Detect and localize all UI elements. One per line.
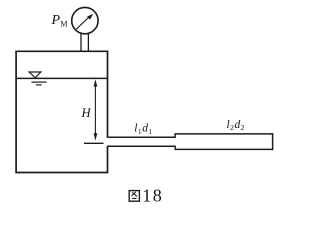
tank top wall bbox=[15, 50, 108, 52]
free-surface triangle symbol bbox=[29, 72, 41, 78]
pipe 2 bottom wall bbox=[175, 148, 274, 150]
caption glyph 图 (drawn) bbox=[129, 191, 139, 202]
pressure gauge PM dial bbox=[72, 7, 98, 33]
tank right wall lower segment bbox=[107, 146, 109, 173]
surface symbol dash 2 bbox=[36, 84, 42, 86]
surface symbol dash 1 bbox=[31, 81, 46, 83]
dimension H arrow (double headed) bbox=[94, 79, 98, 140]
pipe 1 top wall bbox=[108, 136, 176, 138]
dimension bottom tick bbox=[84, 142, 104, 144]
pipe junction step bottom bbox=[174, 146, 176, 150]
gauge needle bbox=[76, 14, 93, 29]
tank left wall bbox=[15, 51, 17, 174]
water surface line bbox=[16, 77, 107, 79]
pipe junction step top bbox=[174, 134, 176, 138]
svg-text:H: H bbox=[81, 106, 92, 120]
pipe 2 top wall bbox=[175, 133, 274, 135]
pipe 2 closed right end bbox=[272, 133, 274, 150]
tank bottom wall bbox=[15, 172, 108, 174]
gauge stem (connecting pipe to tank) bbox=[81, 33, 88, 51]
tank right wall upper segment bbox=[107, 51, 109, 138]
pipe 1 bottom wall bbox=[108, 145, 176, 147]
svg-text:18: 18 bbox=[142, 186, 163, 206]
